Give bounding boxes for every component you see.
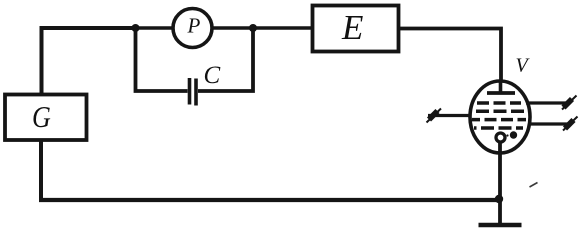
break mark on right lower lead	[563, 117, 578, 131]
svg-text:G: G	[32, 100, 51, 135]
box G (generator)	[5, 95, 87, 141]
tube cathode dot	[510, 131, 517, 138]
wire: grid lead right lower with break mark	[528, 122, 569, 125]
break mark on right upper lead	[562, 96, 577, 110]
svg-text:E: E	[341, 8, 363, 47]
stray mark (print artifact)	[530, 183, 538, 188]
box E (component)	[313, 6, 399, 52]
wire: grid lead left with break mark	[428, 114, 471, 117]
wire: bottom bus	[39, 198, 499, 202]
wire: meter P to right junction	[212, 26, 253, 30]
wire: G top lead up to top bus	[42, 28, 136, 93]
wire: grid lead right upper with break mark	[526, 101, 568, 104]
tube cathode heater ring	[496, 133, 505, 142]
svg-text:C: C	[204, 62, 221, 89]
wire: G bottom lead	[39, 140, 43, 200]
capacitor C (right plate)	[194, 79, 198, 106]
svg-text:V: V	[516, 55, 531, 77]
capacitor C (left plate)	[188, 78, 192, 105]
wire: cathode lead down to ground	[498, 141, 502, 223]
node: junction right of P/C branch	[249, 24, 257, 32]
tube grid 3 (dashed)	[472, 118, 526, 122]
tube grid 1 (dashed)	[477, 101, 521, 105]
svg-text:P: P	[187, 14, 201, 38]
tube anode lead	[499, 80, 503, 92]
node: junction left of P/C branch	[132, 24, 140, 32]
tube cathode tiny mark	[506, 134, 508, 136]
node: junction at cathode/ground	[495, 195, 503, 203]
tube anode plate	[487, 91, 515, 95]
wire: right leg of capacitor branch	[198, 28, 253, 91]
wire: left leg of capacitor branch	[136, 28, 188, 91]
meter P (circle)	[173, 9, 212, 48]
tube V envelope	[470, 81, 530, 153]
wire: junction to meter P	[136, 26, 174, 30]
ground	[479, 223, 522, 227]
break mark on left lead	[427, 109, 442, 123]
wire: box E to tube anode, corner at top right	[400, 29, 501, 83]
tube grid 2 (dashed)	[473, 110, 525, 114]
tube grid 4 (dashed)	[474, 126, 523, 130]
wire: right junction to box E	[253, 26, 311, 30]
